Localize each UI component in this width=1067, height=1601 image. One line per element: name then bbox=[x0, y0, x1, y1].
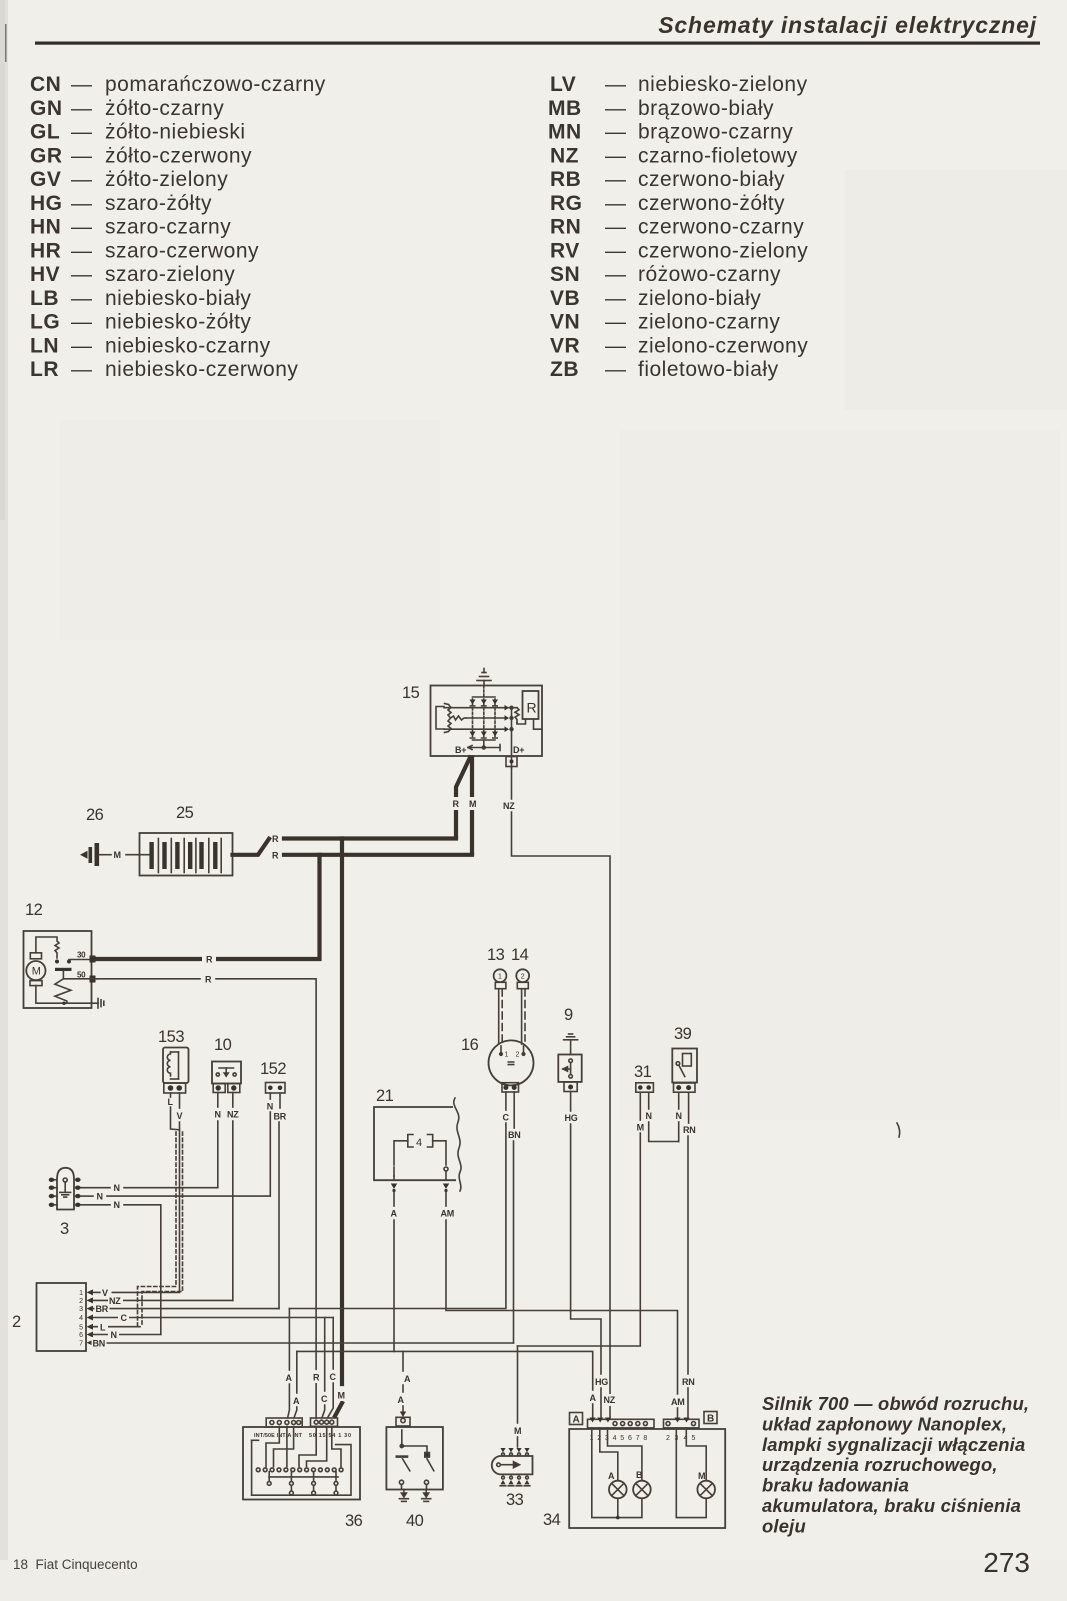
svg-text:pomarańczowo-czarny: pomarańczowo-czarny bbox=[105, 73, 326, 96]
net A: switch36 / switch40 / lamp unit 34 pin1 bbox=[297, 1351, 593, 1390]
svg-text:50 15/54 1 30: 50 15/54 1 30 bbox=[309, 1433, 351, 1439]
wire NZ switch 10 to plug2 pin2 bbox=[232, 1093, 234, 1108]
svg-text:fioletowo-biały: fioletowo-biały bbox=[638, 358, 779, 381]
svg-text:—: — bbox=[71, 121, 93, 144]
svg-text:—: — bbox=[71, 216, 93, 239]
field diode collector bbox=[509, 706, 513, 768]
svg-text:niebiesko-zielony: niebiesko-zielony bbox=[638, 73, 808, 96]
svg-text:M: M bbox=[514, 1426, 521, 1436]
svg-text:C: C bbox=[330, 1372, 337, 1382]
ignition module 16 connector bbox=[502, 1083, 519, 1092]
ground above switch 9 bbox=[564, 1034, 578, 1055]
svg-text:żółto-czarny: żółto-czarny bbox=[105, 97, 224, 120]
header rule bbox=[35, 42, 1040, 45]
svg-text:—: — bbox=[71, 97, 93, 120]
svg-text:HG: HG bbox=[565, 1113, 578, 1123]
svg-text:6: 6 bbox=[79, 1332, 83, 1339]
socket 33 internal bbox=[497, 1462, 520, 1468]
svg-text:—: — bbox=[71, 358, 93, 381]
plug 2 pin4 wire C bbox=[93, 1317, 333, 1319]
plug 2 pins 1-7 bbox=[87, 1289, 94, 1345]
svg-text:GV: GV bbox=[30, 168, 61, 191]
svg-text:żółto-czerwony: żółto-czerwony bbox=[105, 144, 252, 167]
svg-text:czarno-fioletowy: czarno-fioletowy bbox=[638, 144, 798, 167]
plug 2 pin5 wire L bbox=[93, 1326, 140, 1328]
svg-text:A: A bbox=[608, 1471, 615, 1481]
svg-text:niebiesko-biały: niebiesko-biały bbox=[105, 287, 251, 310]
svg-text:HV: HV bbox=[30, 263, 60, 286]
figure caption bbox=[762, 1393, 1029, 1536]
svg-text:szaro-żółty: szaro-żółty bbox=[105, 192, 212, 215]
connector label B bbox=[704, 1412, 717, 1424]
svg-text:L: L bbox=[168, 1097, 174, 1107]
svg-text:21: 21 bbox=[376, 1087, 394, 1105]
relay 153 coil bbox=[167, 1052, 178, 1079]
svg-text:HG: HG bbox=[595, 1377, 608, 1387]
wire N switch 39 bbox=[678, 1093, 680, 1110]
starter M motor bbox=[26, 961, 45, 980]
ground above alternator bbox=[477, 669, 491, 686]
alternator D+ connector bbox=[506, 757, 517, 767]
svg-text:AM: AM bbox=[441, 1209, 454, 1219]
ground link from bridge bbox=[483, 686, 485, 697]
svg-text:LR: LR bbox=[30, 358, 59, 381]
svg-text:BR: BR bbox=[274, 1112, 287, 1122]
svg-text:—: — bbox=[71, 144, 93, 167]
svg-text:16: 16 bbox=[461, 1036, 479, 1054]
svg-text:niebiesko-czerwony: niebiesko-czerwony bbox=[105, 358, 298, 381]
wire M alternator to bus bbox=[470, 758, 474, 854]
connector label A bbox=[570, 1413, 583, 1425]
control unit 21 torn edge bbox=[454, 1098, 461, 1191]
rectifier diodes top row bbox=[470, 700, 499, 707]
svg-text:L: L bbox=[100, 1322, 106, 1332]
svg-text:7: 7 bbox=[79, 1340, 83, 1347]
wire A switch 40 drop bbox=[402, 1351, 404, 1371]
control unit 21 body bbox=[374, 1107, 456, 1180]
svg-text:BN: BN bbox=[93, 1339, 105, 1349]
svg-text:R: R bbox=[453, 799, 460, 809]
starter ground bbox=[92, 999, 104, 1009]
spark plug 13 bbox=[494, 969, 507, 982]
thick feed to ignition switch terminal 30 bbox=[340, 839, 344, 1385]
battery plates bbox=[149, 842, 217, 869]
unit 21 lead A connector arrow bbox=[391, 1184, 397, 1190]
stray scan mark bbox=[897, 1123, 900, 1137]
oil pressure switch 9 body bbox=[558, 1055, 581, 1082]
connector 31 body bbox=[636, 1083, 654, 1092]
svg-text:C: C bbox=[121, 1313, 128, 1323]
field diodes to regulator bbox=[505, 705, 510, 732]
svg-text:40: 40 bbox=[406, 1512, 424, 1530]
svg-text:D+: D+ bbox=[513, 745, 524, 755]
svg-text:2: 2 bbox=[666, 1435, 670, 1442]
svg-text:7: 7 bbox=[636, 1435, 640, 1442]
svg-text:LN: LN bbox=[30, 334, 59, 357]
switch 40 ground right bbox=[422, 1490, 431, 1502]
wire N switch 10 bbox=[217, 1093, 219, 1108]
wire NZ alternator D+ down bbox=[511, 768, 513, 799]
switch 40 ground left bbox=[399, 1490, 408, 1502]
svg-text:B: B bbox=[707, 1414, 714, 1425]
svg-text:—: — bbox=[71, 168, 93, 191]
label R on starter 30 wire bbox=[202, 952, 216, 965]
svg-text:15: 15 bbox=[402, 684, 420, 702]
svg-text:39: 39 bbox=[674, 1025, 692, 1043]
svg-text:żółto-zielony: żółto-zielony bbox=[105, 168, 228, 191]
svg-text:AM: AM bbox=[671, 1397, 684, 1407]
bus R lower (battery to alternator M) bbox=[284, 853, 472, 857]
svg-text:NZ: NZ bbox=[227, 1110, 239, 1120]
svg-text:VB: VB bbox=[550, 287, 580, 310]
svg-text:GN: GN bbox=[30, 97, 63, 120]
svg-text:N: N bbox=[111, 1330, 117, 1340]
wire R alternator to bus bbox=[456, 758, 470, 837]
regulator R bbox=[523, 691, 539, 719]
switch 9 connector bbox=[564, 1082, 577, 1092]
svg-text:—: — bbox=[605, 287, 627, 310]
svg-text:HN: HN bbox=[30, 216, 61, 239]
svg-text:V: V bbox=[102, 1288, 108, 1298]
chassis ground 26 bbox=[80, 843, 99, 866]
svg-text:niebiesko-czarny: niebiesko-czarny bbox=[105, 334, 271, 357]
warning lamp B bbox=[633, 1481, 651, 1499]
lamp M wiring bbox=[676, 1428, 706, 1518]
svg-text:—: — bbox=[71, 311, 93, 334]
ignition module 16 body bbox=[489, 1040, 534, 1085]
svg-text:C: C bbox=[503, 1113, 510, 1123]
switch 40 connector arrow bbox=[400, 1412, 406, 1418]
svg-text:B+: B+ bbox=[455, 745, 466, 755]
svg-text:szaro-czerwony: szaro-czerwony bbox=[105, 239, 259, 262]
svg-text:urządzenia rozruchowego,: urządzenia rozruchowego, bbox=[762, 1454, 998, 1475]
svg-text:RN: RN bbox=[550, 216, 581, 239]
svg-text:A: A bbox=[293, 1396, 300, 1406]
plug 2 body bbox=[37, 1283, 87, 1351]
svg-text:RV: RV bbox=[550, 239, 580, 262]
solenoid contacts bbox=[55, 960, 59, 964]
switch 40 internals bbox=[397, 1430, 434, 1490]
bus R upper (battery to alternator B+) bbox=[284, 836, 456, 840]
svg-text:V: V bbox=[177, 1111, 183, 1121]
lamp unit strip A bbox=[588, 1419, 655, 1428]
svg-text:M: M bbox=[637, 1123, 644, 1133]
svg-text:VN: VN bbox=[550, 311, 580, 334]
svg-text:INT/50E INT/A INT: INT/50E INT/A INT bbox=[254, 1433, 303, 1439]
socket 33 body bbox=[492, 1456, 533, 1474]
svg-text:R: R bbox=[527, 700, 537, 716]
svg-text:RN: RN bbox=[683, 1125, 695, 1135]
starter motor 12 body bbox=[24, 931, 92, 1008]
svg-text:R: R bbox=[313, 1373, 320, 1383]
svg-text:1: 1 bbox=[505, 1052, 509, 1059]
svg-text:Schematy instalacji elektryczn: Schematy instalacji elektrycznej bbox=[658, 12, 1037, 38]
wire N connector 31 to switch 39 bbox=[648, 1093, 650, 1110]
svg-text:CN: CN bbox=[30, 73, 61, 96]
svg-text:—: — bbox=[605, 121, 627, 144]
rectifier diodes bottom row bbox=[470, 732, 499, 739]
spark plug 14 bbox=[516, 969, 529, 982]
wire HG switch 9 to lamp unit 34 bbox=[570, 1092, 572, 1112]
svg-text:M: M bbox=[698, 1471, 705, 1481]
svg-text:niebiesko-żółty: niebiesko-żółty bbox=[105, 311, 251, 334]
sensor 3 internal ground bbox=[60, 1178, 71, 1197]
svg-text:R: R bbox=[206, 955, 213, 965]
svg-text:34: 34 bbox=[543, 1511, 561, 1529]
relay 153 connector bbox=[164, 1083, 186, 1093]
screened cable dashes left bbox=[138, 1132, 177, 1327]
svg-text:GR: GR bbox=[30, 144, 63, 167]
terminal 30 pin bbox=[90, 956, 96, 963]
battery 25 body bbox=[140, 833, 233, 876]
svg-text:—: — bbox=[605, 239, 627, 262]
unit 21 lead A bbox=[394, 1141, 408, 1165]
starter internal resistor bbox=[36, 937, 59, 958]
svg-text:2: 2 bbox=[12, 1313, 21, 1331]
switch 10 body bbox=[212, 1062, 241, 1084]
svg-text:GL: GL bbox=[30, 121, 60, 144]
wire N connector 152 bbox=[269, 1093, 271, 1099]
svg-text:N: N bbox=[97, 1192, 103, 1202]
svg-text:M: M bbox=[469, 799, 476, 809]
lamp A wiring bbox=[600, 1428, 618, 1481]
svg-text:szaro-zielony: szaro-zielony bbox=[105, 263, 235, 286]
switch 39 body bbox=[672, 1049, 697, 1083]
svg-text:3: 3 bbox=[79, 1306, 83, 1313]
svg-text:—: — bbox=[71, 239, 93, 262]
svg-text:14: 14 bbox=[511, 946, 529, 964]
svg-text:2: 2 bbox=[521, 974, 525, 981]
wire N sensor3 to switch 10 bbox=[81, 1187, 110, 1189]
svg-text:A: A bbox=[404, 1374, 411, 1384]
terminal 50 pin bbox=[90, 976, 96, 983]
svg-text:A: A bbox=[398, 1395, 405, 1405]
wire A unit 21 to switch 40 bbox=[393, 1192, 395, 1206]
svg-text:układ zapłonowy Nanoplex,: układ zapłonowy Nanoplex, bbox=[762, 1413, 1007, 1434]
B- bracket inside alternator bbox=[468, 740, 500, 751]
svg-text:—: — bbox=[71, 263, 93, 286]
svg-text:25: 25 bbox=[176, 804, 194, 822]
svg-text:—: — bbox=[605, 263, 627, 286]
branch battery to starter 30 bbox=[96, 855, 320, 959]
plug 2 pin6 wire N bbox=[93, 1334, 161, 1336]
wire C branches into switch 36 bbox=[324, 1318, 326, 1392]
svg-text:żółto-niebieski: żółto-niebieski bbox=[105, 121, 246, 144]
svg-text:zielono-czerwony: zielono-czerwony bbox=[638, 334, 808, 357]
svg-text:BN: BN bbox=[508, 1130, 520, 1140]
wire AM unit 21 to lamp unit 34 bbox=[445, 1192, 447, 1206]
connector 152 body bbox=[266, 1083, 286, 1094]
svg-text:33: 33 bbox=[506, 1491, 524, 1509]
svg-text:NZ: NZ bbox=[109, 1296, 121, 1306]
svg-text:czerwono-czarny: czerwono-czarny bbox=[638, 216, 804, 239]
switch 36 internal mechanism bbox=[252, 1427, 351, 1496]
plug 2 pin3 wire BR bbox=[93, 1308, 279, 1310]
svg-text:—: — bbox=[605, 334, 627, 357]
HT lead plug 14 to coil bbox=[521, 989, 523, 1044]
svg-text:—: — bbox=[71, 73, 93, 96]
svg-text:ZB: ZB bbox=[550, 358, 579, 381]
svg-text:braku ładowania: braku ładowania bbox=[762, 1475, 909, 1496]
svg-text:36: 36 bbox=[345, 1512, 363, 1530]
screened cable dashes right bbox=[142, 1132, 183, 1327]
svg-text:N: N bbox=[646, 1111, 652, 1121]
battery negative lead bbox=[99, 854, 111, 856]
socket 33 bottom pins bbox=[502, 1476, 529, 1479]
svg-text:RG: RG bbox=[550, 192, 583, 215]
svg-text:A: A bbox=[590, 1393, 597, 1403]
svg-text:8: 8 bbox=[643, 1435, 647, 1442]
svg-text:oleju: oleju bbox=[762, 1515, 806, 1536]
wire colour legend right column bbox=[548, 73, 808, 381]
svg-text:MB: MB bbox=[548, 97, 582, 120]
svg-text:R: R bbox=[205, 975, 212, 985]
sensor 3 body bbox=[57, 1168, 74, 1210]
alternator 15 body bbox=[431, 686, 543, 757]
svg-text:C: C bbox=[321, 1394, 328, 1404]
svg-text:RN: RN bbox=[682, 1377, 694, 1387]
svg-text:152: 152 bbox=[260, 1060, 286, 1078]
svg-text:HR: HR bbox=[30, 239, 61, 262]
svg-text:—: — bbox=[605, 97, 627, 120]
wire M to socket 33 bbox=[517, 1346, 519, 1423]
svg-text:szaro-czarny: szaro-czarny bbox=[105, 216, 231, 239]
lamp B wiring bbox=[608, 1428, 642, 1481]
svg-text:6: 6 bbox=[628, 1435, 632, 1442]
svg-text:A: A bbox=[286, 1373, 293, 1383]
svg-text:R: R bbox=[272, 834, 279, 844]
alternator rectifier bridge bbox=[444, 697, 505, 740]
svg-text:1: 1 bbox=[498, 974, 502, 981]
wire A to switch 36 lower bbox=[296, 1351, 298, 1393]
svg-text:4: 4 bbox=[613, 1435, 617, 1442]
wire N sensor3 to plug 2 pin6 bbox=[81, 1204, 110, 1206]
svg-text:—: — bbox=[605, 311, 627, 334]
svg-text:HG: HG bbox=[30, 192, 63, 215]
warning lamp A bbox=[609, 1481, 627, 1499]
svg-text:LV: LV bbox=[550, 73, 576, 96]
svg-text:5: 5 bbox=[79, 1324, 83, 1331]
svg-text:26: 26 bbox=[86, 806, 104, 824]
svg-text:2: 2 bbox=[516, 1052, 520, 1059]
field resistor bbox=[515, 708, 519, 723]
svg-text:A: A bbox=[391, 1209, 398, 1219]
svg-text:LB: LB bbox=[30, 287, 59, 310]
svg-text:13: 13 bbox=[487, 946, 505, 964]
plug 2 pin1 wire V bbox=[93, 1291, 100, 1293]
svg-text:Silnik 700 — obwód rozruchu,: Silnik 700 — obwód rozruchu, bbox=[762, 1393, 1029, 1414]
switch 36 left connector bbox=[266, 1418, 302, 1427]
solenoid coil bbox=[55, 979, 97, 1003]
svg-text:brązowo-czarny: brązowo-czarny bbox=[638, 121, 793, 144]
svg-text:10: 10 bbox=[214, 1036, 232, 1054]
svg-text:M: M bbox=[338, 1391, 345, 1401]
svg-text:N: N bbox=[114, 1183, 120, 1193]
svg-text:R: R bbox=[272, 850, 279, 860]
svg-text:VR: VR bbox=[550, 334, 580, 357]
svg-text:31: 31 bbox=[634, 1063, 652, 1081]
wire L relay 153 bbox=[170, 1093, 172, 1097]
svg-text:—: — bbox=[605, 216, 627, 239]
wire M connector 31 to device 33 bbox=[639, 1093, 641, 1121]
wire colour legend left column bbox=[30, 73, 326, 381]
HT lead plug 13 to coil bbox=[498, 989, 500, 1044]
svg-text:BR: BR bbox=[96, 1304, 109, 1314]
warning lamp M bbox=[697, 1481, 715, 1499]
svg-text:M: M bbox=[114, 850, 121, 860]
svg-text:—: — bbox=[71, 334, 93, 357]
svg-text:czerwono-zielony: czerwono-zielony bbox=[638, 239, 808, 262]
svg-text:4: 4 bbox=[79, 1315, 83, 1322]
wire R starter 50 bbox=[97, 978, 200, 980]
svg-text:—: — bbox=[605, 192, 627, 215]
socket 33 top pins bbox=[500, 1448, 529, 1452]
svg-text:2: 2 bbox=[79, 1298, 83, 1305]
starter earth wire bbox=[36, 986, 92, 1004]
lamp unit strip B bbox=[664, 1419, 700, 1428]
svg-text:N: N bbox=[114, 1200, 120, 1210]
svg-text:NZ: NZ bbox=[604, 1395, 616, 1405]
sensor 3 left terminals bbox=[49, 1178, 55, 1207]
wire C module 16 to switch 36 bbox=[505, 1092, 507, 1110]
svg-text:—: — bbox=[71, 192, 93, 215]
wire A to switch 36 upper bbox=[288, 1309, 290, 1371]
svg-text:N: N bbox=[676, 1111, 682, 1121]
alternator stator winding bbox=[436, 704, 466, 733]
svg-text:18 Fiat Cinquecento: 18 Fiat Cinquecento bbox=[13, 1557, 138, 1572]
wire N sensor3 to connector 152 bbox=[81, 1195, 93, 1197]
wire V relay 153 to plug2 pin1 bbox=[179, 1093, 181, 1108]
wire BN module 16 to plug2 pin7 bbox=[513, 1092, 515, 1128]
svg-text:NZ: NZ bbox=[503, 801, 515, 811]
svg-text:3: 3 bbox=[60, 1220, 69, 1238]
unit 21 lead AM connector arrow bbox=[443, 1184, 449, 1190]
svg-text:153: 153 bbox=[158, 1028, 184, 1046]
svg-text:zielono-czarny: zielono-czarny bbox=[638, 311, 780, 334]
svg-text:SN: SN bbox=[550, 263, 580, 286]
svg-text:N: N bbox=[267, 1102, 273, 1112]
svg-text:czerwono-żółty: czerwono-żółty bbox=[638, 192, 785, 215]
svg-text:M: M bbox=[32, 966, 41, 978]
svg-text:A: A bbox=[573, 1415, 580, 1426]
svg-text:czerwono-biały: czerwono-biały bbox=[638, 168, 785, 191]
svg-text:—: — bbox=[605, 144, 627, 167]
plug 2 pin2 wire NZ bbox=[93, 1299, 233, 1301]
svg-text:—: — bbox=[71, 287, 93, 310]
switch 36 right connector bbox=[311, 1418, 338, 1426]
lamp unit 34 body bbox=[569, 1429, 725, 1528]
wire RN switch 39 to lamp unit 34 bbox=[688, 1093, 690, 1124]
svg-text:RB: RB bbox=[550, 168, 581, 191]
inhibitor switch 40 body bbox=[386, 1427, 443, 1490]
svg-text:lampki sygnalizacji włączenia: lampki sygnalizacji włączenia bbox=[762, 1434, 1025, 1455]
svg-text:9: 9 bbox=[564, 1006, 573, 1024]
battery positive split to buses bbox=[233, 839, 270, 855]
svg-text:akumulatora, braku ciśnienia: akumulatora, braku ciśnienia bbox=[762, 1495, 1021, 1516]
sensor 3 right terminals bbox=[75, 1178, 81, 1207]
svg-text:30: 30 bbox=[77, 951, 86, 960]
switch 39 connector bbox=[674, 1083, 696, 1092]
unit 21 lead AM bbox=[433, 1141, 446, 1165]
svg-text:—: — bbox=[605, 168, 627, 191]
relay 153 body bbox=[163, 1048, 189, 1084]
lamp common return A bbox=[592, 1428, 642, 1518]
svg-text:brązowo-biały: brązowo-biały bbox=[638, 97, 774, 120]
svg-text:4: 4 bbox=[416, 1137, 422, 1149]
svg-text:różowo-czarny: różowo-czarny bbox=[638, 263, 781, 286]
svg-text:273: 273 bbox=[983, 1547, 1030, 1578]
svg-text:B: B bbox=[636, 1470, 643, 1480]
